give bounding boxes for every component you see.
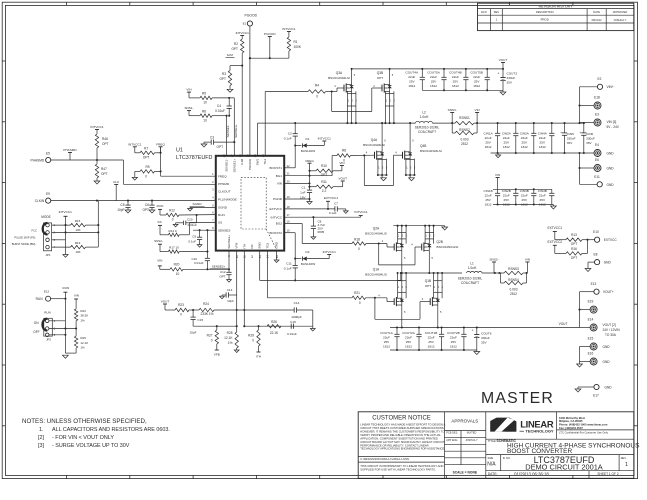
svg-text:CIN3A: CIN3A — [520, 132, 530, 136]
svg-text:R27: R27 — [207, 334, 213, 338]
wire VOUT bottom rail — [390, 322, 580, 328]
svg-text:C:\DESIGN\2001\2001A-1\2001A-1: C:\DESIGN\2001\2001A-1\2001A-1.DSN — [360, 457, 409, 461]
node CLK stub — [113, 180, 120, 201]
svg-text:L1: L1 — [470, 261, 474, 265]
resistor RSNS1 — [455, 116, 474, 125]
svg-text:APP ENG.: APP ENG. — [446, 439, 458, 442]
svg-text:SENSE1+: SENSE1+ — [234, 124, 238, 138]
svg-text:PLLIN/MODE: PLLIN/MODE — [218, 198, 237, 202]
svg-text:BSC014N04LSI: BSC014N04LSI — [437, 245, 459, 249]
svg-text:SGND: SGND — [218, 206, 228, 210]
wire pin19 PGND — [284, 198, 310, 202]
svg-text:CIN4A: CIN4A — [538, 132, 548, 136]
svg-text:BG2: BG2 — [276, 222, 282, 226]
svg-text:7: 7 — [212, 219, 214, 223]
svg-text:22uF: 22uF — [503, 194, 510, 198]
wire coutb gnd rail — [390, 349, 477, 351]
svg-text:22uF: 22uF — [405, 336, 412, 340]
svg-text:JOSHUA Y.: JOSHUA Y. — [613, 18, 626, 22]
svg-text:COUT4A: COUT4A — [406, 71, 419, 75]
svg-text:SENSE2-: SENSE2- — [218, 228, 231, 232]
node PHASMD stub — [63, 148, 77, 160]
svg-text:2: 2 — [402, 286, 404, 289]
svg-text:25V: 25V — [406, 340, 412, 344]
title block title section — [486, 439, 640, 455]
wire jp1 row3 — [52, 239, 66, 241]
svg-text:35V: 35V — [507, 81, 513, 85]
svg-text:1: 1 — [398, 286, 400, 289]
title block date row — [486, 471, 634, 479]
wire cinb top rail — [493, 188, 552, 190]
svg-text:25V: 25V — [522, 198, 528, 202]
svg-text:22uF: 22uF — [485, 194, 492, 198]
wire Q2B drain — [428, 250, 433, 274]
capacitor C16 0.01uF — [287, 320, 297, 336]
wire pin14 TG2 — [267, 251, 352, 298]
wire FREQ to pin1 — [161, 175, 216, 177]
wire Q2A drain — [401, 250, 406, 274]
ground at C7 — [343, 211, 348, 214]
wire Q4 gate underpass — [364, 150, 402, 185]
svg-text:INTVCC1: INTVCC1 — [59, 210, 73, 214]
svg-text:15: 15 — [287, 229, 290, 233]
resistor RSNS3 — [504, 267, 523, 275]
svg-text:RSNS3: RSNS3 — [508, 267, 519, 271]
svg-text:3: 3 — [433, 234, 435, 237]
resistor R15 10K — [71, 219, 100, 232]
node ITH stub — [256, 346, 261, 359]
svg-text:Q2A: Q2A — [373, 226, 380, 230]
capacitor COUT4A — [406, 69, 425, 90]
svg-text:4: 4 — [334, 84, 336, 88]
svg-text:GND: GND — [607, 183, 615, 187]
node SNS1- stub — [184, 106, 193, 116]
svg-text:INTVCC1: INTVCC1 — [354, 210, 368, 214]
svg-text:22uF: 22uF — [521, 194, 528, 198]
svg-text:RSNS2: RSNS2 — [459, 128, 470, 132]
capacitor C8 4.7uF — [311, 217, 326, 237]
svg-text:- FOR VIN < VOUT ONLY: - FOR VIN < VOUT ONLY — [52, 435, 114, 441]
node VFB stub — [214, 344, 220, 357]
node SNS2- stub l1 — [489, 258, 498, 274]
svg-text:C12: C12 — [220, 270, 226, 274]
transistor Q4B BSC014N04LSI — [403, 144, 442, 160]
svg-text:0.003: 0.003 — [510, 288, 518, 292]
svg-text:COUT3: COUT3 — [507, 72, 518, 76]
svg-text:R15: R15 — [75, 219, 81, 223]
svg-text:35V: 35V — [481, 341, 487, 345]
svg-text:VERIFY PROPER AND RELIABLE OPE: VERIFY PROPER AND RELIABLE OPERATION IN … — [360, 433, 441, 437]
ground Q4B — [409, 175, 415, 181]
svg-text:0.01uF: 0.01uF — [287, 332, 297, 336]
svg-text:VIN: VIN — [525, 258, 530, 262]
svg-text:0: 0 — [180, 313, 182, 317]
svg-text:28: 28 — [222, 154, 226, 157]
svg-text:4: 4 — [373, 84, 375, 88]
svg-text:R2: R2 — [234, 42, 238, 46]
wire pin13 SW2 to bootstrap rail — [260, 251, 401, 281]
svg-text:E12: E12 — [44, 289, 50, 293]
svg-text:1.0uH: 1.0uH — [420, 115, 429, 119]
capacitor CIN6 330uF — [579, 123, 595, 153]
svg-text:21: 21 — [287, 172, 290, 176]
svg-text:10: 10 — [203, 101, 207, 105]
svg-text:E11: E11 — [594, 175, 600, 179]
resistor R24 233K 1% — [199, 302, 214, 316]
transistor Q4A BSC014N04LSI — [363, 138, 385, 160]
svg-text:10K: 10K — [75, 250, 80, 254]
svg-text:APPROVALS: APPROVALS — [451, 418, 478, 423]
svg-text:Q1B: Q1B — [425, 279, 431, 283]
svg-text:3: 3 — [355, 99, 357, 102]
svg-text:R10: R10 — [321, 164, 327, 168]
svg-text:DATE:: DATE: — [488, 472, 498, 476]
svg-text:22uF: 22uF — [430, 75, 437, 79]
svg-text:VOUT: VOUT — [499, 58, 508, 62]
wire VOUT top rail — [352, 68, 503, 70]
resistor R9 0 — [140, 165, 161, 178]
svg-text:VIN: VIN — [186, 88, 191, 92]
svg-text:25V: 25V — [485, 198, 491, 202]
capacitor COUT4B — [449, 69, 468, 90]
resistor R17 10 — [160, 246, 207, 254]
svg-text:5: 5 — [354, 73, 356, 77]
svg-text:SENSE2+: SENSE2+ — [212, 265, 226, 269]
node VIN stub r10 — [333, 161, 344, 171]
svg-text:4: 4 — [212, 196, 214, 200]
wire Q1A source — [401, 305, 406, 329]
ground cout rail — [500, 90, 506, 95]
wire Q4A drain — [382, 123, 386, 152]
svg-text:MASTER: MASTER — [481, 390, 554, 407]
ground cinb — [551, 205, 557, 210]
svg-text:PGOOD: PGOOD — [248, 158, 252, 170]
svg-text:JOSHUA Y: JOSHUA Y — [465, 439, 478, 442]
svg-text:VFB: VFB — [214, 353, 220, 357]
svg-text:2: 2 — [438, 286, 440, 289]
svg-text:COUT4B: COUT4B — [449, 71, 462, 75]
svg-text:VIN: VIN — [277, 182, 282, 186]
ground Q4A — [381, 175, 387, 181]
resistor R11 2.2 — [308, 180, 333, 193]
title block approvals — [445, 418, 486, 474]
resistor R23 0 — [165, 303, 189, 317]
ground below C5 — [125, 210, 131, 213]
wire Q3B drain — [389, 68, 394, 85]
svg-text:SER2010-102ML: SER2010-102ML — [458, 277, 483, 281]
svg-text:330uF: 330uF — [586, 136, 595, 140]
capacitor C4 0.01uF — [215, 98, 232, 117]
wire pin16 BG2 — [284, 224, 352, 244]
wire pin17 INTVCC — [284, 216, 361, 218]
svg-text:COUT2A: COUT2A — [402, 331, 415, 335]
svg-text:SENSE2+: SENSE2+ — [227, 235, 231, 249]
svg-text:CIN6: CIN6 — [586, 132, 593, 136]
capacitor C7 0.1uF — [329, 201, 346, 215]
svg-text:SS: SS — [218, 221, 222, 225]
MASTER label — [481, 390, 554, 407]
svg-text:8: 8 — [212, 226, 214, 230]
wire Q2 gate underpass — [379, 243, 422, 265]
svg-text:25V: 25V — [522, 141, 528, 145]
svg-text:25V: 25V — [474, 80, 480, 84]
wire rsns3 to vin — [523, 272, 528, 274]
svg-text:R8: R8 — [342, 149, 346, 153]
resistor R22 38.3K — [74, 309, 88, 336]
svg-text:0: 0 — [343, 159, 345, 163]
svg-text:LTC3787EUFD: LTC3787EUFD — [176, 155, 213, 161]
svg-text:10pF: 10pF — [117, 208, 124, 212]
resistor R8 0 — [332, 149, 350, 176]
svg-text:2512: 2512 — [510, 292, 517, 296]
svg-text:- SURGE VOLTAGE UP TO 30V: - SURGE VOLTAGE UP TO 30V — [52, 443, 130, 449]
capacitor C20 0.01uF — [176, 215, 198, 227]
diode D2 BAS140W — [295, 250, 329, 266]
ground below R28 — [234, 350, 239, 353]
svg-text:3: 3 — [406, 286, 408, 289]
resistor R4 0 — [308, 84, 326, 99]
capacitor C11 0.1uF — [284, 259, 298, 282]
svg-text:BOOST2: BOOST2 — [269, 231, 282, 235]
svg-text:PCB DES.: PCB DES. — [446, 432, 458, 435]
resistor R3 OPT — [219, 66, 231, 90]
svg-text:1812: 1812 — [452, 84, 459, 88]
svg-text:HOWEVER, IT REMAINS THE CUSTOM: HOWEVER, IT REMAINS THE CUSTOMER'S RESPO… — [360, 430, 444, 434]
svg-text:E13: E13 — [591, 282, 597, 286]
svg-text:COUT2B: COUT2B — [447, 331, 460, 335]
svg-text:R46: R46 — [102, 137, 108, 141]
svg-text:22uF: 22uF — [539, 194, 546, 198]
resistor R12 0 — [160, 209, 179, 222]
svg-text:25V: 25V — [540, 198, 546, 202]
svg-text:C14: C14 — [294, 301, 300, 305]
inductor L2 1.0uH — [415, 111, 440, 134]
ground below C8 — [311, 237, 316, 240]
svg-text:TECHNOLOGY: TECHNOLOGY — [525, 429, 554, 434]
ground coutb — [474, 350, 480, 355]
svg-text:E2: E2 — [598, 77, 602, 81]
capacitor C12 OPT — [219, 269, 231, 279]
svg-text:VFB: VFB — [235, 243, 239, 249]
svg-text:INTVCC1: INTVCC1 — [318, 137, 332, 141]
node INTVCC1 stub freq — [128, 142, 142, 153]
svg-text:BSC014N04LSI: BSC014N04LSI — [328, 76, 350, 80]
svg-text:1812: 1812 — [450, 345, 457, 349]
svg-text:22uF: 22uF — [452, 75, 459, 79]
svg-text:R16: R16 — [571, 247, 577, 251]
svg-text:PROD: PROD — [541, 18, 549, 22]
svg-text:CIRCUIT BOARD LAYOUT MAY SIGNI: CIRCUIT BOARD LAYOUT MAY SIGNIFICANTLY A… — [360, 440, 444, 444]
svg-text:VIN: VIN — [157, 258, 162, 262]
wire r8 to Q4A gate — [351, 150, 375, 156]
capacitor C2 0.1uF — [284, 123, 298, 145]
svg-text:3: 3 — [212, 188, 214, 192]
svg-text:RSNS4: RSNS4 — [508, 278, 519, 282]
svg-text:1: 1 — [625, 462, 628, 468]
svg-text:BAS140W: BAS140W — [301, 262, 315, 266]
node VIN stub run — [74, 294, 79, 309]
svg-text:35V: 35V — [586, 141, 592, 145]
svg-text:CIN1B: CIN1B — [484, 189, 493, 193]
svg-text:C7: C7 — [334, 201, 338, 205]
svg-text:OPT: OPT — [377, 76, 383, 80]
svg-text:PHSMD: PHSMD — [218, 182, 230, 186]
svg-text:0.01uF: 0.01uF — [194, 261, 204, 265]
capacitor C10 0.01uF — [191, 251, 210, 270]
svg-text:SW1: SW1 — [256, 158, 260, 165]
svg-text:SENSE1+: SENSE1+ — [232, 159, 236, 173]
resistor RSNS2 0.003 2512 — [452, 123, 477, 146]
svg-text:PHASMD: PHASMD — [31, 158, 45, 162]
jumper JP2 RUN — [33, 310, 56, 341]
svg-text:COUT1B: COUT1B — [425, 331, 438, 335]
svg-text:OPT: OPT — [425, 284, 431, 288]
wire ILIM jog — [230, 65, 243, 156]
wire SW2 rail — [397, 272, 462, 274]
svg-text:OPT: OPT — [219, 77, 226, 81]
svg-text:BSC014N04LSI: BSC014N04LSI — [365, 273, 387, 277]
svg-text:R13: R13 — [571, 233, 577, 237]
wire run row — [51, 298, 67, 300]
ground q2 rail — [442, 226, 448, 230]
svg-text:22uF: 22uF — [383, 336, 390, 340]
svg-text:OPT: OPT — [231, 47, 238, 51]
svg-text:10pF: 10pF — [189, 331, 196, 335]
svg-text:BAS140W: BAS140W — [301, 149, 315, 153]
capacitor COUT2B — [447, 328, 466, 351]
svg-text:BG1: BG1 — [276, 174, 282, 178]
svg-text:330uF: 330uF — [507, 76, 516, 80]
resistor R16 OPT — [566, 247, 582, 260]
svg-text:1uF: 1uF — [300, 191, 305, 195]
resistor R29 0 — [248, 326, 260, 346]
svg-text:EXTVCC: EXTVCC — [269, 207, 282, 211]
capacitor CIN2B — [502, 189, 519, 207]
svg-text:BOOST1: BOOST1 — [269, 166, 282, 170]
resistor R1 100K — [282, 27, 302, 58]
capacitor C14 1000pF — [244, 301, 312, 319]
terminal E2 VIN+ — [578, 77, 613, 123]
svg-text:E8: E8 — [594, 252, 598, 256]
svg-text:22uF: 22uF — [485, 136, 492, 140]
svg-text:2: 2 — [429, 234, 431, 237]
wire gnd bus right — [578, 153, 580, 184]
svg-text:VOUT: VOUT — [559, 322, 568, 326]
svg-text:R19: R19 — [75, 241, 81, 245]
ground at C13 — [220, 296, 225, 299]
wire cout ground rail — [422, 89, 503, 91]
svg-text:VIN: VIN — [475, 108, 480, 112]
wire q2 gnd rail — [393, 225, 444, 227]
svg-text:R17 10: R17 10 — [169, 246, 179, 250]
wire SW1 rail — [258, 122, 416, 124]
node VIN stub sns3 — [475, 108, 480, 123]
svg-text:SIZE: SIZE — [488, 456, 494, 460]
wire pin15 BOOST2 — [284, 233, 296, 260]
wire mode vertical — [97, 201, 99, 248]
svg-text:SNS2-: SNS2- — [154, 239, 163, 243]
svg-text:ITH: ITH — [256, 355, 261, 359]
terminal E16 GND — [580, 352, 611, 365]
svg-text:25V: 25V — [540, 141, 546, 145]
svg-text:35V: 35V — [567, 141, 573, 145]
svg-text:25V: 25V — [453, 80, 459, 84]
svg-text:1: 1 — [425, 234, 427, 237]
svg-text:R9: R9 — [145, 165, 149, 169]
svg-text:VIN: VIN — [495, 173, 500, 177]
svg-text:5: 5 — [212, 203, 214, 207]
terminal E19 — [580, 300, 598, 313]
svg-text:6: 6 — [212, 211, 214, 215]
svg-text:0: 0 — [145, 175, 147, 179]
svg-text:R25: R25 — [80, 336, 86, 340]
svg-text:1.: 1. — [39, 427, 44, 433]
svg-text:TITLE:: TITLE: — [488, 439, 497, 443]
svg-text:MODE: MODE — [41, 215, 51, 219]
capacitor CIN4A — [538, 123, 555, 153]
svg-text:C5: C5 — [120, 203, 124, 207]
svg-text:R28: R28 — [227, 331, 233, 335]
wire r23-r24 — [189, 309, 199, 311]
svg-text:INTVCC1: INTVCC1 — [282, 27, 296, 31]
svg-text:RUN: RUN — [63, 286, 70, 290]
resistor R13 OPT — [566, 233, 582, 246]
node SENSE2+ label — [210, 265, 229, 269]
svg-text:SENSE1-: SENSE1- — [225, 159, 229, 172]
svg-text:25V: 25V — [451, 340, 457, 344]
svg-text:CIN5: CIN5 — [567, 132, 574, 136]
wire pin7 — [189, 222, 215, 224]
svg-text:APPLICATION. COMPONENT SUBSTI: APPLICATION. COMPONENT SUBSTITUTION AND … — [360, 436, 438, 440]
wire jp1 row2 — [52, 231, 100, 233]
wire pin25 PGOOD — [249, 57, 251, 59]
ground pin19 — [307, 202, 312, 205]
svg-text:0.1uF: 0.1uF — [188, 239, 196, 243]
svg-text:Q4A: Q4A — [371, 138, 378, 142]
svg-text:CLK: CLK — [113, 180, 120, 184]
node Q2B source 123 — [425, 226, 435, 244]
svg-text:GND: GND — [607, 152, 615, 156]
svg-text:COUT5A: COUT5A — [427, 71, 440, 75]
svg-text:PGOOD: PGOOD — [264, 32, 276, 36]
node VOUT stub vfb — [161, 300, 170, 311]
svg-text:OPT: OPT — [219, 275, 225, 279]
svg-text:E16: E16 — [588, 352, 594, 356]
svg-text:1812: 1812 — [430, 84, 437, 88]
svg-text:GND: GND — [275, 241, 279, 249]
wire e15 e16 bus — [579, 347, 581, 365]
wire pin24 SW1 — [257, 123, 259, 156]
resistor R21 0 — [352, 291, 366, 305]
svg-text:ILIM: ILIM — [227, 53, 233, 57]
svg-text:E9: E9 — [46, 192, 50, 196]
svg-text:CIRCUIT THAT MEETS CUSTOMER-SU: CIRCUIT THAT MEETS CUSTOMER-SUPPLIED SPE… — [360, 426, 444, 430]
svg-text:CIN3B: CIN3B — [520, 189, 529, 193]
resistor R14 0 — [160, 223, 189, 237]
wire pin9 — [228, 251, 230, 270]
svg-text:1812: 1812 — [408, 84, 415, 88]
svg-text:1: 1 — [496, 18, 498, 22]
svg-text:[3]: [3] — [38, 443, 44, 449]
resistor R27 0 — [207, 326, 219, 344]
svg-text:CUSTOMER NOTICE: CUSTOMER NOTICE — [372, 416, 431, 422]
svg-text:INTVCC1: INTVCC1 — [323, 250, 337, 254]
svg-text:0.01uF: 0.01uF — [188, 223, 198, 227]
svg-text:C3: C3 — [210, 136, 214, 140]
capacitor CIN3A — [520, 123, 537, 153]
wire r18 to Q2A gate — [366, 239, 394, 247]
svg-text:0.1uF: 0.1uF — [284, 267, 292, 271]
